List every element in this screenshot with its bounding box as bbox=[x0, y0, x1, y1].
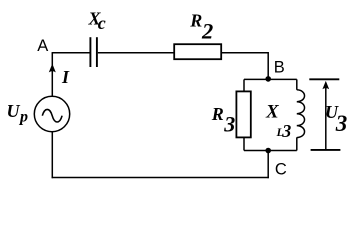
svg-text:A: A bbox=[37, 37, 48, 55]
wire: inductor branch top lead bbox=[296, 79, 298, 89]
node B junction dot bbox=[265, 76, 271, 82]
voltage U3 bottom bar bbox=[311, 149, 341, 151]
node C junction dot bbox=[265, 148, 271, 154]
wire: top rail of parallel section bbox=[244, 78, 297, 80]
inductor XL3 coil (4 arcs) bbox=[297, 90, 305, 138]
source Up circle bbox=[34, 96, 69, 131]
svg-text:3: 3 bbox=[335, 111, 348, 136]
svg-text:R: R bbox=[189, 11, 202, 31]
svg-text:2: 2 bbox=[201, 18, 213, 43]
wire: resistor R2 to top-right corner and down to node B bbox=[221, 53, 268, 80]
wire: R3 branch top lead bbox=[243, 79, 245, 91]
label Up (source value) bbox=[7, 101, 29, 126]
wire: left rail from source bottom to bottom-left corner bbox=[51, 132, 53, 179]
wire: bottom rail of parallel section bbox=[244, 150, 297, 152]
voltage U3 arrow stem bbox=[325, 83, 327, 150]
capacitor Xc left plate bbox=[89, 37, 91, 67]
wire: node C down to bottom return wire bbox=[267, 151, 269, 179]
svg-text:3: 3 bbox=[281, 121, 291, 141]
svg-text:U: U bbox=[7, 101, 21, 121]
wire: top wire from node A to capacitor left plate bbox=[52, 52, 90, 54]
svg-text:c: c bbox=[98, 13, 106, 33]
svg-text:R: R bbox=[211, 104, 224, 124]
label Xc (capacitor value) bbox=[88, 8, 106, 33]
current arrow I arrowhead bbox=[49, 64, 56, 73]
wire: bottom return wire bbox=[52, 177, 269, 179]
label XL3 (inductor value) bbox=[265, 102, 291, 141]
voltage U3 arrowhead bbox=[322, 81, 329, 89]
svg-text:3: 3 bbox=[223, 111, 235, 136]
source Up sine wave bbox=[42, 109, 62, 122]
wire: R3 branch bottom lead bbox=[243, 137, 245, 150]
svg-text:I: I bbox=[61, 67, 70, 87]
label R2 (resistor value) bbox=[189, 11, 213, 44]
capacitor Xc right plate bbox=[96, 37, 98, 67]
resistor R3 body bbox=[236, 91, 250, 137]
label R3 (resistor value) bbox=[211, 104, 236, 137]
svg-text:C: C bbox=[275, 161, 287, 179]
label U3 (voltage) bbox=[325, 102, 347, 136]
svg-text:p: p bbox=[18, 109, 28, 126]
wire: inductor branch bottom lead bbox=[296, 137, 298, 150]
svg-text:X: X bbox=[265, 102, 280, 123]
wire: left rail from node A corner down to source top bbox=[51, 53, 53, 97]
voltage U3 top bar bbox=[309, 78, 339, 80]
svg-text:B: B bbox=[274, 59, 285, 77]
wire: capacitor to resistor R2 bbox=[98, 52, 174, 54]
resistor R2 body bbox=[174, 44, 221, 59]
